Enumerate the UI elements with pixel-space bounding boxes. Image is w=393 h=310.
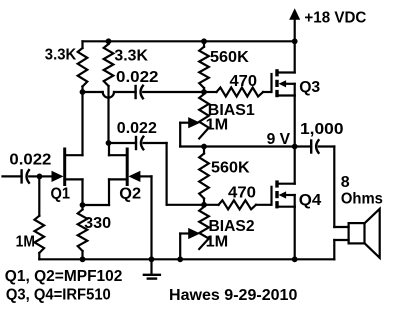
node input / 1M junction (37, 174, 43, 180)
svg-text:+18 VDC: +18 VDC (304, 9, 366, 26)
wire Q2 gate to ground (140, 176, 151, 259)
wire Q2 drain node to cap (109, 142, 137, 144)
wire Q4 drain to 9V node (294, 147, 296, 184)
wire cap to node B (144, 143, 204, 205)
label 0.022 upper (116, 69, 159, 86)
wire input node to Q1 gate (40, 175, 53, 177)
power +18 VDC supply arrow (289, 8, 300, 41)
label 1M input (16, 234, 35, 251)
arrow BIAS2 wiper (180, 228, 200, 239)
node A bias1 top (201, 89, 207, 95)
svg-text:0.022: 0.022 (117, 120, 157, 137)
node 9V output junction (292, 144, 298, 150)
svg-text:0.022: 0.022 (116, 69, 159, 86)
label Q2 (119, 185, 141, 202)
resistor 560K lower (199, 147, 209, 205)
wire hop to capacitor (114, 91, 136, 93)
wire 9V node row (204, 145, 295, 147)
svg-text:Ohms: Ohms (341, 191, 383, 208)
wire hop over Q2 drain wire (103, 92, 114, 98)
wire Q2 source down (83, 179, 110, 205)
wire BIAS1 wiper to node (180, 123, 204, 147)
transistor Q1 MPF102 (52, 149, 83, 185)
label Q4 (299, 192, 322, 209)
transistor Q2 MPF102 (109, 149, 140, 185)
label 3.3K R1 (45, 46, 77, 63)
label 0.022 input (9, 151, 51, 168)
capacitor 1,000 uF output (295, 140, 335, 153)
svg-text:Hawes 9-29-2010: Hawes 9-29-2010 (169, 287, 297, 304)
label Hawes 9-29-2010 (169, 287, 297, 304)
label 0.022 lower (117, 120, 157, 137)
capacitor 0.022 input (3, 170, 40, 183)
node Q1 Q2 source junction (80, 202, 86, 208)
svg-text:Q3: Q3 (299, 79, 320, 96)
resistor 560K upper (199, 41, 209, 92)
svg-text:Q3, Q4=IRF510: Q3, Q4=IRF510 (6, 286, 111, 303)
svg-text:3.3K: 3.3K (114, 47, 148, 64)
svg-text:Q2: Q2 (119, 185, 141, 202)
wire BIAS2 wiper to ground rail (179, 234, 181, 260)
svg-text:470: 470 (230, 73, 258, 90)
wire Q1 source down (81, 179, 83, 205)
svg-text:1,000: 1,000 (300, 121, 344, 138)
svg-text:Q1, Q2=MPF102: Q1, Q2=MPF102 (5, 268, 123, 285)
node BIAS1 bottom / 560K lower top (201, 144, 207, 150)
label +18 VDC (304, 9, 366, 26)
node top rail / 560K junction (201, 38, 207, 44)
node Q4 source ground junction (292, 256, 298, 262)
node ground symbol junction (149, 256, 155, 262)
wire capacitor to node A (143, 91, 204, 93)
ground (144, 259, 160, 278)
node BIAS2 wiper ground junction (177, 256, 183, 262)
wire 1M to ground rail (38, 253, 40, 259)
resistor 470 lower (204, 200, 271, 209)
label 8 Ohms (341, 174, 383, 208)
resistor 1M input (35, 176, 45, 253)
label Q3 (299, 79, 320, 96)
capacitor 0.022 lower coupling (136, 137, 143, 150)
node top rail / +18 junction (292, 38, 298, 44)
wire ground rail (39, 258, 334, 260)
arrow BIAS1 wiper (180, 117, 200, 128)
label 9 V (267, 131, 291, 148)
svg-text:330: 330 (84, 215, 111, 232)
svg-text:Q1: Q1 (51, 185, 71, 202)
wire speaker bottom to ground rail (334, 240, 348, 259)
wire Q3 source to 9V node (294, 96, 296, 147)
label Q3 Q4 = IRF510 (6, 286, 111, 303)
node Q2 drain junction (106, 140, 112, 146)
wire Q4 source to ground rail (294, 207, 296, 260)
wire output cap to speaker top (334, 147, 348, 228)
label 560K lower (211, 160, 250, 177)
resistor 3.3K R2 (104, 41, 114, 86)
speaker 8 ohm (349, 209, 380, 258)
label 330 (84, 215, 111, 232)
potentiometer BIAS1 1M (199, 94, 209, 139)
label Q1 Q2 = MPF102 (5, 268, 123, 285)
capacitor 0.022 upper coupling (136, 86, 143, 99)
label BIAS1 1M (206, 116, 229, 133)
svg-text:0.022: 0.022 (9, 151, 51, 168)
label 470 lower (228, 185, 256, 202)
svg-text:560K: 560K (211, 160, 250, 177)
label 1,000 (300, 121, 344, 138)
label 3.3K R2 (114, 47, 148, 64)
label BIAS2 (209, 218, 255, 235)
label 470 upper (230, 73, 258, 90)
svg-text:8: 8 (341, 174, 350, 191)
resistor 470 upper (204, 88, 271, 97)
resistor 330 (78, 205, 88, 259)
transistor Q4 IRF510 (272, 180, 295, 208)
svg-text:1M: 1M (206, 116, 229, 133)
potentiometer BIAS2 1M (199, 207, 209, 249)
wire Q1 drain node to hop (83, 91, 103, 93)
node top rail / R2 junction (106, 38, 112, 44)
label Q1 (51, 185, 71, 202)
svg-text:3.3K: 3.3K (45, 46, 77, 63)
wire 3.3K R2 to Q2 drain (107, 86, 109, 143)
svg-text:Q4: Q4 (299, 192, 322, 209)
resistor 3.3K R1 (78, 41, 88, 92)
svg-text:560K: 560K (210, 49, 249, 66)
node 330 ground junction (80, 256, 86, 262)
wire Q1 drain up (81, 92, 83, 155)
node B bias2 top (201, 202, 207, 208)
wire top +18V rail (83, 40, 295, 42)
transistor Q3 IRF510 (272, 69, 295, 97)
label BIAS1 (208, 102, 255, 119)
svg-text:470: 470 (228, 185, 256, 202)
wire Q3 drain to rail (294, 41, 296, 72)
label BIAS2 1M (206, 233, 229, 250)
node R1 / Q1 drain / coupling junction (80, 89, 86, 95)
label 560K upper (210, 49, 249, 66)
svg-text:1M: 1M (16, 234, 35, 251)
svg-text:1M: 1M (206, 233, 229, 250)
svg-text:9 V: 9 V (267, 131, 291, 148)
wire Q2 drain up (108, 143, 110, 155)
